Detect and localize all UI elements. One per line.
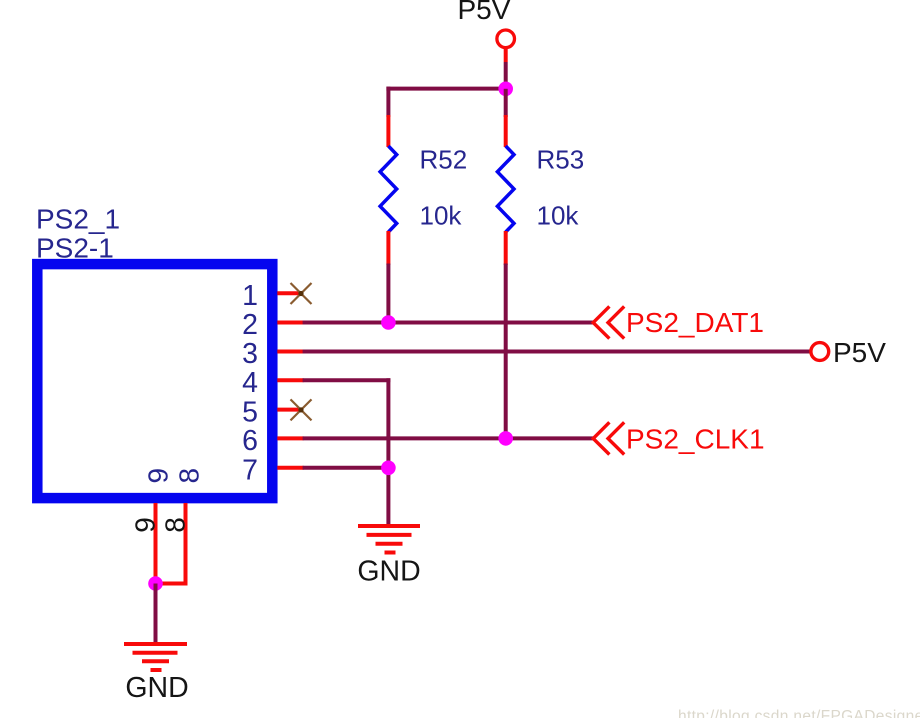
svg-text:PS2-1: PS2-1 <box>36 232 114 263</box>
pin 2 <box>242 309 303 341</box>
wire P5V vertical to junction <box>504 62 508 91</box>
wire pin8 to pin9 <box>156 582 186 586</box>
resistor R52 <box>380 87 467 323</box>
svg-text:R52: R52 <box>420 144 468 174</box>
power port P5V right <box>811 337 886 368</box>
svg-text:3: 3 <box>242 338 258 370</box>
wire pin4 vertical to GND <box>386 378 390 524</box>
svg-text:P5V: P5V <box>458 0 511 25</box>
svg-text:2: 2 <box>242 309 258 341</box>
junction node pin2/R52 <box>381 315 396 330</box>
svg-text:10k: 10k <box>420 200 463 230</box>
svg-text:7: 7 <box>242 455 258 487</box>
svg-text:9: 9 <box>143 468 174 484</box>
svg-text:5: 5 <box>242 396 258 428</box>
svg-text:GND: GND <box>125 672 188 704</box>
no-connect X pin 1 <box>291 283 312 304</box>
wire pin6 to PS2_CLK1 <box>303 436 594 440</box>
net label PS2_CLK1 <box>593 422 764 454</box>
svg-text:6: 6 <box>242 425 258 457</box>
svg-text:4: 4 <box>242 367 258 399</box>
junction node at P5V <box>498 82 513 97</box>
svg-text:8: 8 <box>174 468 205 484</box>
wire pin4 horizontal <box>303 378 391 382</box>
junction node pin7 <box>381 461 396 476</box>
pin 1 <box>242 280 300 312</box>
pin 9 stub <box>154 503 158 586</box>
svg-text:PS2_1: PS2_1 <box>36 203 120 234</box>
svg-text:http://blog.csdn.net/FPGADesig: http://blog.csdn.net/FPGADesigner <box>678 708 920 718</box>
pin 8 stub <box>184 503 188 586</box>
wire top horizontal to R52 <box>386 87 505 91</box>
pin 4 <box>242 367 303 399</box>
pin 5 <box>242 396 300 428</box>
junction node pins 8/9 <box>148 576 163 591</box>
wire pin7 to pin4 net <box>303 466 389 470</box>
svg-text:R53: R53 <box>537 144 585 174</box>
net label PS2_DAT1 <box>593 306 764 338</box>
no-connect X pin 5 <box>291 399 312 420</box>
svg-text:8: 8 <box>160 517 191 533</box>
connector PS2_1 body <box>36 203 272 498</box>
svg-text:PS2_CLK1: PS2_CLK1 <box>626 424 765 455</box>
svg-text:PS2_DAT1: PS2_DAT1 <box>626 307 764 338</box>
svg-text:9: 9 <box>130 517 161 533</box>
svg-text:10k: 10k <box>537 200 580 230</box>
resistor R53 <box>497 89 584 439</box>
svg-text:GND: GND <box>357 556 420 588</box>
pin 7 <box>242 455 303 487</box>
wire pins 8/9 to GND <box>154 584 158 645</box>
ground GND left <box>124 644 189 704</box>
svg-text:1: 1 <box>242 280 258 312</box>
ground GND right <box>357 526 420 588</box>
junction node pin6/R53 <box>498 431 513 446</box>
svg-text:P5V: P5V <box>833 337 886 368</box>
wire pin3 to P5V right <box>303 350 811 354</box>
wire pin2 to PS2_DAT1 <box>303 321 594 325</box>
power port P5V top <box>458 0 515 62</box>
pin 6 <box>242 425 303 457</box>
pin 3 <box>242 338 303 370</box>
